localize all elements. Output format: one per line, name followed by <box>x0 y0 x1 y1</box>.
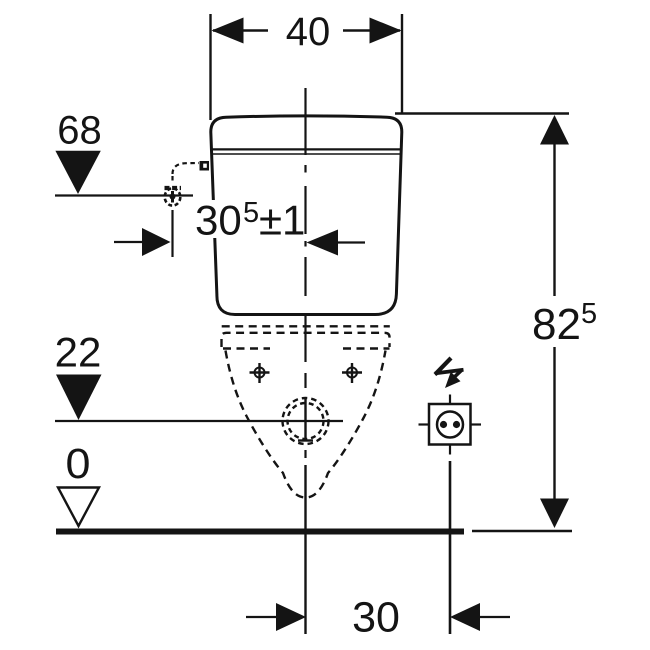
svg-text:5: 5 <box>243 197 259 229</box>
centerline / extension line down to bottom dimension <box>304 465 306 634</box>
supply level line (68) <box>55 194 193 196</box>
centerline long dash beside label <box>304 186 306 234</box>
datum triangle 22 (filled) <box>56 375 102 421</box>
socket tick top <box>449 395 451 405</box>
svg-text:22: 22 <box>55 329 102 376</box>
outlet T bar <box>298 439 313 441</box>
extension line right of 40 dimension <box>401 14 403 113</box>
dimension line 40 left segment <box>213 29 268 31</box>
arrow pointing right toward supply line <box>114 241 144 243</box>
svg-text:0: 0 <box>66 440 91 488</box>
floor line (thick) <box>56 529 464 535</box>
pan top back edge (dashed) <box>222 325 390 327</box>
pan flange band (dashed rounded top) <box>222 333 390 347</box>
centerline above and through cistern lid (solid) <box>304 88 306 155</box>
lightning bolt (electrical connection) <box>435 358 451 375</box>
82.5 dimension line lower segment <box>553 347 555 500</box>
outlet outer circle (dashed) <box>283 398 329 444</box>
centerline dot at arrow tip <box>304 241 306 247</box>
centerline dash below outlet <box>304 450 306 458</box>
angle stop valve (dashed symbol) <box>165 186 182 190</box>
dimension arrow 40 right <box>370 18 402 44</box>
svg-text:±1: ±1 <box>259 197 305 244</box>
socket tick bottom <box>449 445 451 455</box>
datum triangle 68 (filled) <box>55 151 100 194</box>
cistern lid joint upper line <box>212 148 402 150</box>
fixing bolt left <box>258 363 260 383</box>
arrow pointing left toward centerline <box>307 230 339 256</box>
centerline lower dash inside cistern <box>304 257 306 296</box>
socket square <box>429 404 471 445</box>
pan flange bottom step left (dashed) <box>223 347 270 349</box>
supply stub line below valve <box>171 210 173 257</box>
svg-text:30: 30 <box>352 594 400 642</box>
centerline through pan top (solid segment) <box>304 315 306 362</box>
label 30^5 +/-1 with white backing <box>193 200 307 238</box>
pan bowl outline (dashed) <box>226 351 386 498</box>
svg-text:68: 68 <box>57 109 102 153</box>
82.5 arrow down <box>540 499 569 529</box>
svg-text:5: 5 <box>581 298 597 330</box>
cistern lid joint lower line <box>212 153 401 155</box>
bottom dimension 30 tail line left <box>246 616 277 618</box>
socket pin left <box>440 421 447 428</box>
dimension arrow 40 left <box>212 18 244 44</box>
datum triangle 0 (outline) <box>58 488 99 527</box>
centerline through outlet (solid) <box>304 399 306 442</box>
centerline short dash below lid <box>304 165 306 173</box>
socket pin right <box>453 421 460 428</box>
svg-text:40: 40 <box>286 10 331 54</box>
outlet level line (22) <box>55 420 343 422</box>
fixing bolt right <box>351 363 353 383</box>
floor line right segment (thin) <box>472 530 572 533</box>
bottom dimension arrow left-pointing <box>450 603 480 631</box>
82.5 arrow up <box>540 115 569 145</box>
extension line left of 40 dimension <box>209 14 211 120</box>
centerline dash <box>304 373 306 388</box>
svg-text:30: 30 <box>195 197 242 244</box>
bottom dimension 30 tail line right <box>480 616 510 618</box>
socket drop line to floor and below <box>449 461 452 634</box>
dimension line 40 right segment <box>343 29 400 31</box>
bottom dimension arrow right-pointing <box>276 603 306 631</box>
supply pipe dashed elbow <box>173 163 200 182</box>
water inlet fitting on cistern wall <box>200 161 210 171</box>
socket tick left <box>419 423 430 425</box>
outlet inner circle (dashed) <box>288 403 324 439</box>
82.5 dimension line upper segment <box>553 143 555 296</box>
cistern outline <box>211 116 402 315</box>
82.5 top reference line <box>395 112 569 114</box>
pan flange bottom step right (dashed) <box>343 347 390 349</box>
socket tick right <box>471 423 482 425</box>
socket circle <box>437 412 463 438</box>
svg-text:82: 82 <box>532 300 581 349</box>
